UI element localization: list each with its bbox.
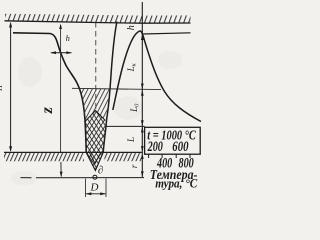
single hatch zone in funnel	[81, 89, 110, 123]
hatch top boundary line	[72, 88, 161, 89]
top surface hatched band	[5, 14, 191, 23]
V tip lines	[86, 153, 103, 171]
svg-text:∂: ∂	[98, 164, 103, 176]
cross hatch weld nugget	[85, 111, 107, 171]
svg-text:z: z	[39, 106, 56, 114]
svg-text:r: r	[129, 164, 139, 168]
r dimension arrows	[141, 153, 144, 177]
svg-text:тура, °C: тура, °C	[155, 176, 198, 191]
Lk dimension arrows	[141, 34, 144, 89]
dimension line H	[9, 22, 12, 152]
funnel right edge	[103, 22, 117, 153]
reinforcement level line	[142, 33, 190, 34]
long vertical line right	[141, 2, 143, 177]
left temperature curve / fusion boundary left	[13, 33, 86, 153]
top surface line	[5, 21, 191, 23]
paper mottling	[11, 51, 182, 185]
svg-text:D: D	[90, 182, 99, 194]
boundary line y=126.4	[106, 125, 145, 127]
chevron top of nugget	[85, 111, 106, 123]
L dimension arrows	[141, 127, 144, 152]
D extension ticks	[86, 179, 106, 198]
info box	[145, 127, 201, 154]
bottom dashed reference line	[21, 177, 145, 179]
svg-text:h: h	[66, 33, 70, 43]
svg-text:L: L	[126, 137, 136, 143]
svg-text:200: 200	[147, 139, 163, 155]
background paper	[0, 0, 202, 198]
axis ticks	[149, 154, 190, 158]
boundary line y=89.6 handled above; L0 arrows	[141, 90, 144, 126]
bottom hatched band	[4, 153, 142, 161]
svg-text:600: 600	[172, 137, 189, 154]
svg-text:h: h	[126, 25, 137, 30]
center axis dashed	[95, 22, 97, 110]
right temperature curve	[113, 31, 201, 121]
dimension line z (vertical at x=60.6)	[59, 24, 62, 178]
bottom surface line	[4, 151, 142, 153]
electrode circle	[93, 175, 97, 179]
crossing double arrow at weld point	[50, 51, 72, 54]
D dimension arrows	[86, 192, 106, 195]
